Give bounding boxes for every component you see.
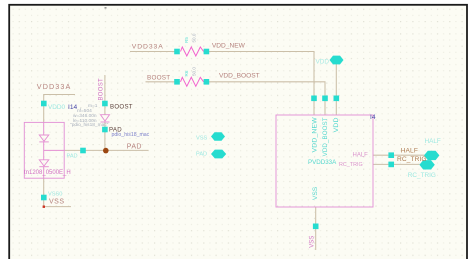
svg-text:HALF: HALF: [353, 153, 369, 159]
svg-text:pdio_his18_mac: pdio_his18_mac: [112, 132, 150, 138]
svg-text:HALF: HALF: [401, 147, 418, 154]
svg-text:R6: R6: [184, 70, 189, 76]
svg-text:I4: I4: [370, 114, 376, 121]
svg-text:VSS0: VSS0: [48, 192, 62, 198]
svg-text:VDD_NEW: VDD_NEW: [311, 117, 318, 153]
svg-text:VDD: VDD: [333, 117, 340, 132]
svg-text:"pdio_his18_mac": "pdio_his18_mac": [70, 122, 109, 128]
svg-text:PAD: PAD: [67, 154, 78, 160]
svg-text:RC_TRIG: RC_TRIG: [339, 162, 363, 168]
svg-text:BOOST: BOOST: [147, 74, 170, 81]
svg-text:VDD33A: VDD33A: [132, 43, 164, 50]
svg-text:VDD_NEW: VDD_NEW: [212, 43, 246, 50]
svg-text:VDD_BOOST: VDD_BOOST: [219, 73, 260, 80]
svg-text:VSS: VSS: [196, 136, 207, 142]
svg-text:tn1208_0500E_H: tn1208_0500E_H: [24, 170, 71, 176]
svg-text:R5: R5: [184, 37, 189, 43]
svg-text:BOOST: BOOST: [99, 78, 105, 101]
svg-text:50.0: 50.0: [192, 67, 197, 76]
svg-text:RC_TRIG: RC_TRIG: [397, 156, 427, 163]
svg-text:VDD0: VDD0: [48, 104, 65, 111]
svg-text:50.0: 50.0: [192, 33, 197, 42]
svg-text:VDD: VDD: [316, 58, 330, 65]
svg-text:VDD_BOOST: VDD_BOOST: [322, 117, 329, 156]
svg-text:RC_TRIG: RC_TRIG: [408, 172, 436, 179]
svg-text:PVDD33A: PVDD33A: [308, 159, 337, 166]
svg-text:VSS: VSS: [49, 199, 65, 206]
svg-text:VSS: VSS: [309, 236, 315, 248]
svg-text:PAD: PAD: [127, 143, 142, 150]
svg-text:BOOST: BOOST: [110, 103, 133, 110]
svg-text:PAD: PAD: [196, 152, 207, 158]
svg-text:HALF: HALF: [425, 138, 441, 145]
svg-text:VDD33A: VDD33A: [37, 82, 72, 91]
svg-text:VSS: VSS: [312, 186, 319, 200]
